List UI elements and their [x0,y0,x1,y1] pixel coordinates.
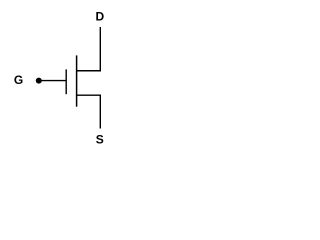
wire gate lead [39,80,66,82]
node gate terminal dot [36,78,42,84]
svg-text:G: G [14,73,23,87]
svg-text:S: S [96,133,104,147]
wire drain vertical [99,27,101,71]
transistor Q1 (N-channel MOSFET) [0,0,122,158]
wire source horizontal [76,94,101,96]
channel bar of Q1 [76,55,78,106]
wire source vertical [99,95,101,128]
gate plate of Q1 [65,69,67,94]
wire drain horizontal [76,70,101,72]
svg-text:D: D [95,10,104,24]
